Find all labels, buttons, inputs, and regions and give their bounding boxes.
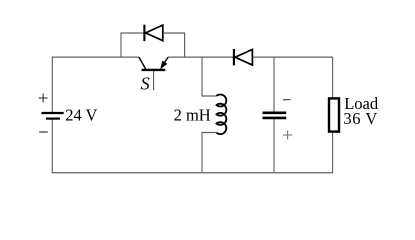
wire right rail lower (332, 133, 334, 174)
wire top rail middle segment (168, 56, 233, 58)
wire left rail lower (51, 120, 53, 174)
capacitor minus sign (283, 99, 291, 101)
wire switch right riser (164, 33, 185, 57)
antiparallel diode cathode bar (143, 25, 145, 41)
transistor S base bar (142, 69, 166, 71)
load resistor rectangle (329, 98, 339, 131)
antiparallel diode triangle (146, 25, 163, 41)
diode D triangle (235, 49, 252, 65)
wire bottom rail (52, 172, 333, 174)
wire switch left riser (121, 33, 144, 57)
svg-text:S: S (141, 74, 150, 94)
wire inductor branch top (202, 57, 217, 97)
svg-text:2 mH: 2 mH (174, 106, 211, 125)
wire capacitor branch bottom (273, 119, 275, 173)
capacitor C top plate (263, 112, 287, 115)
wire top rail left segment (52, 56, 139, 58)
battery minus sign (39, 131, 48, 133)
capacitor C bottom plate (263, 117, 287, 120)
battery plus sign (39, 94, 48, 103)
transistor S collector diagonal (139, 57, 146, 69)
transistor S emitter arrowhead (160, 61, 167, 70)
wire left rail upper (51, 57, 53, 113)
battery 24V short plate (46, 117, 60, 119)
inductor L 2mH coil (217, 94, 227, 134)
battery 24V long plate (42, 112, 64, 114)
svg-text:24 V: 24 V (65, 106, 97, 125)
transistor S emitter diagonal (165, 57, 169, 62)
wire gate lead of S (153, 70, 155, 90)
svg-text:36 V: 36 V (343, 109, 377, 128)
wire top rail right segment (253, 56, 333, 58)
wire capacitor branch top (273, 57, 275, 112)
wire right rail upper (332, 57, 334, 98)
wire inductor branch bottom (202, 133, 217, 174)
capacitor plus sign (283, 131, 292, 140)
diode D cathode bar (233, 49, 235, 66)
